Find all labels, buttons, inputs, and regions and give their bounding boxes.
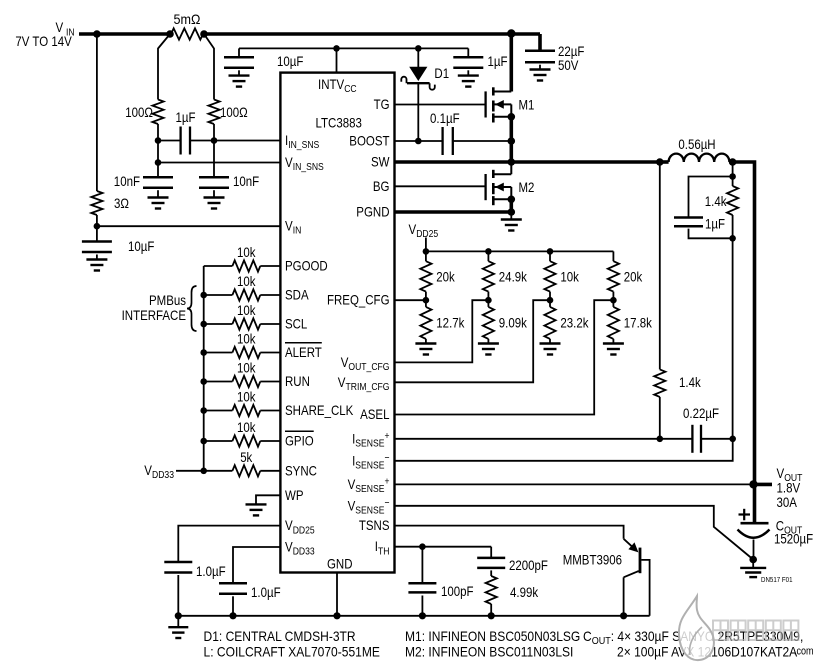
wire INTVCC rail xyxy=(239,47,468,49)
junction divider bus 3 xyxy=(547,248,554,255)
wire VIN pin xyxy=(97,225,281,227)
resistor 3ohm xyxy=(91,191,102,215)
label 20k divider 1 xyxy=(436,269,455,285)
svg-text:M2: INFINEON BSC011N03LSI: M2: INFINEON BSC011N03LSI xyxy=(405,644,573,660)
pin SCL xyxy=(285,316,307,332)
junction bus SYNC xyxy=(200,468,207,475)
resistor 1.4k dcr xyxy=(654,369,665,397)
resistor 4.99k xyxy=(486,576,497,604)
wire VSENSE+ line xyxy=(395,483,754,485)
svg-text:M2: M2 xyxy=(519,179,535,195)
wire BOOST right xyxy=(453,140,512,142)
note D1 part xyxy=(204,628,356,644)
resistor 20k divider 1 top xyxy=(420,261,431,291)
junction VIN-3ohm xyxy=(93,30,101,38)
wire 3ohm to node xyxy=(96,215,98,226)
svg-text:SENSE: SENSE xyxy=(355,460,384,472)
resistor 10k ALERT xyxy=(232,347,260,358)
svg-text:DD25: DD25 xyxy=(416,228,438,240)
resistor 1.4k snubber xyxy=(727,186,738,215)
svg-text:DN517 F01: DN517 F01 xyxy=(761,575,793,584)
pin VIN_SNS xyxy=(285,154,324,173)
resistor 10k divider 3 top xyxy=(544,261,555,291)
junction divider mid 3 xyxy=(547,297,554,304)
junction L1 out xyxy=(729,158,737,166)
wire dcr to isense xyxy=(659,397,661,439)
svg-text:17.8k: 17.8k xyxy=(624,315,653,331)
resistor 10k RUN xyxy=(232,376,260,387)
svg-text:FREQ_CFG: FREQ_CFG xyxy=(327,292,390,308)
svg-text:PGND: PGND xyxy=(356,204,389,220)
wire 22uF stub xyxy=(538,34,542,51)
svg-text:RUN: RUN xyxy=(285,373,310,389)
junction INTVCC pin xyxy=(333,45,340,52)
svg-text:24.9k: 24.9k xyxy=(499,269,528,285)
svg-text:WP: WP xyxy=(285,487,304,503)
wire snubber bottom xyxy=(689,229,733,239)
capacitor 10nF right xyxy=(199,177,229,188)
label MMBT3906 xyxy=(563,552,622,568)
node VDD33 feed label xyxy=(144,462,174,481)
wire TSNS xyxy=(395,526,624,539)
label 24.9k divider 2 xyxy=(499,269,528,285)
label 20k divider 4 xyxy=(624,269,643,285)
wire left 10nF drop xyxy=(157,163,159,178)
junction IIN_SNS right xyxy=(211,137,218,144)
wire SW xyxy=(395,160,660,164)
capacitor COUT polarized xyxy=(738,523,770,559)
label 10uF vin xyxy=(128,238,154,254)
junction VIN_SNS xyxy=(155,159,162,166)
svg-text:23.2k: 23.2k xyxy=(560,315,589,331)
label 10k GPIO xyxy=(237,419,256,435)
transistor M2 xyxy=(486,162,512,205)
wire divider bus xyxy=(426,250,614,252)
capacitor 0.22uF xyxy=(660,425,733,453)
wire VTRIM_CFG xyxy=(395,300,551,382)
pin ASEL xyxy=(360,406,390,422)
diode D1 schottky xyxy=(401,48,435,141)
svg-text:IN_SNS: IN_SNS xyxy=(293,161,324,173)
svg-text:µF: µF xyxy=(182,109,196,125)
capacitor 10nF left xyxy=(143,177,173,188)
svg-text:.com: .com xyxy=(794,646,814,658)
wire divider top 3 xyxy=(549,251,551,261)
svg-text:100Ω: 100Ω xyxy=(220,104,248,120)
svg-text:10nF: 10nF xyxy=(114,173,140,189)
label 10k SDA xyxy=(237,273,256,289)
resistor 9.09k divider 2 bottom xyxy=(483,307,494,339)
svg-text:10µF: 10µF xyxy=(277,53,303,69)
svg-text:+: + xyxy=(385,430,390,442)
pin PGND xyxy=(356,204,389,220)
wire divider mid 2 xyxy=(487,292,489,307)
pin ISENSE- xyxy=(352,452,389,472)
svg-text:10k: 10k xyxy=(560,269,579,285)
junction VIN pin node xyxy=(94,223,101,230)
junction bus ALERT xyxy=(200,349,207,356)
svg-text:TH: TH xyxy=(378,545,390,557)
wire 100pF to rail xyxy=(421,596,423,616)
label 17.8k divider 4 xyxy=(624,315,653,331)
transistor Q1 MMBT3906 xyxy=(624,539,650,616)
svg-text:SENSE: SENSE xyxy=(355,438,384,450)
svg-text:LTC3883: LTC3883 xyxy=(316,115,363,131)
wire snubber cap branch xyxy=(689,177,733,218)
wire left tap lower xyxy=(157,124,159,163)
svg-text:100Ω: 100Ω xyxy=(125,104,153,120)
wire ISENSE+ line xyxy=(395,438,660,440)
node VIN input label xyxy=(15,19,74,49)
wire M1 source to SW xyxy=(509,117,513,162)
label 10k divider 3 xyxy=(560,269,579,285)
wire IIN_SNS xyxy=(214,140,280,142)
junction bus RUN xyxy=(200,378,207,385)
junction 5mohm left xyxy=(166,30,174,38)
label 100ohm right xyxy=(220,104,248,120)
svg-text:1.0µF: 1.0µF xyxy=(251,584,281,600)
svg-text:SW: SW xyxy=(371,154,390,170)
label 0.1uF xyxy=(430,110,460,126)
pin VDD25 xyxy=(285,517,315,536)
svg-text:10k: 10k xyxy=(237,389,256,405)
pin VIN xyxy=(285,218,301,237)
svg-text:10k: 10k xyxy=(237,302,256,318)
junction ITH xyxy=(419,543,426,550)
brace PMBus xyxy=(187,286,197,331)
capacitor 22uF input xyxy=(525,51,555,62)
wire DCR sense vertical xyxy=(659,162,661,369)
svg-text:INTERFACE: INTERFACE xyxy=(122,307,186,323)
svg-text:0.56µH: 0.56µH xyxy=(678,136,715,152)
junction rail gnd pin xyxy=(333,612,340,619)
svg-text:10µF: 10µF xyxy=(128,238,154,254)
wire GPIO row xyxy=(204,440,281,442)
op-amp U1 LTC3883 body xyxy=(280,73,394,573)
svg-text:SDA: SDA xyxy=(285,287,309,303)
pin TG xyxy=(374,96,390,112)
wire snubber top xyxy=(732,162,734,186)
label 2200pF xyxy=(509,557,548,573)
inductor L1 0.56uH xyxy=(660,154,733,162)
label COUT plus xyxy=(739,509,751,521)
junction SW M2 xyxy=(508,158,516,166)
svg-text:9.09k: 9.09k xyxy=(499,315,528,331)
svg-text:−: − xyxy=(385,497,390,509)
svg-text:0.22µF: 0.22µF xyxy=(683,405,719,421)
label 0.56uH xyxy=(678,136,715,152)
svg-text:L: COILCRAFT XAL7070-551ME: L: COILCRAFT XAL7070-551ME xyxy=(204,644,380,660)
ground 10uF intvcc xyxy=(229,70,250,86)
svg-text:1µF: 1µF xyxy=(705,216,725,232)
svg-text:5k: 5k xyxy=(240,449,253,465)
svg-text:TSNS: TSNS xyxy=(359,517,390,533)
junction rail vdd25 xyxy=(175,612,182,619)
capacitor 1.0uF vdd25 xyxy=(164,562,192,573)
svg-text:1.4k: 1.4k xyxy=(705,193,728,209)
pin ITH xyxy=(375,538,390,557)
ground rail left xyxy=(168,616,188,638)
wire left sense tap xyxy=(158,34,170,100)
svg-text:DD33: DD33 xyxy=(293,546,315,558)
ground 10nF right xyxy=(204,190,225,208)
wire BOOST left xyxy=(395,140,443,142)
wire right sense tap xyxy=(204,34,214,100)
svg-text:−: − xyxy=(385,452,390,464)
note COUT part1 xyxy=(583,628,803,647)
svg-text:ALERT: ALERT xyxy=(285,344,322,360)
resistor 24.9k divider 2 top xyxy=(483,261,494,291)
label M1 xyxy=(519,97,535,113)
wire VDD25 bypass xyxy=(178,526,280,562)
svg-text:DD25: DD25 xyxy=(293,524,315,536)
wire VOUT corner xyxy=(733,162,755,523)
pin VDD33 xyxy=(285,539,315,558)
label 1.0uF vdd33 xyxy=(251,584,281,600)
ground WP xyxy=(246,495,281,515)
junction snubber top xyxy=(729,173,736,180)
svg-text:12.7k: 12.7k xyxy=(436,315,465,331)
junction bus SDA xyxy=(200,292,207,299)
wire 4.99k to rail xyxy=(490,604,492,616)
capacitor 1uF intvcc xyxy=(453,48,483,67)
resistor 10k SHARE_CLK xyxy=(232,405,260,416)
svg-text:Ω: Ω xyxy=(191,11,200,27)
svg-text:PGOOD: PGOOD xyxy=(285,258,328,274)
label 4.99k xyxy=(510,584,539,600)
svg-text:50V: 50V xyxy=(558,57,579,73)
label D1 xyxy=(434,65,449,81)
svg-text:IN_SNS: IN_SNS xyxy=(288,139,319,151)
label 1uF intvcc xyxy=(488,53,508,69)
svg-text:SENSE: SENSE xyxy=(355,505,384,517)
capacitor 1uF input filter xyxy=(158,127,214,155)
wire divider top 4 xyxy=(612,251,614,261)
ground PGND xyxy=(501,212,522,231)
label 5k SYNC xyxy=(240,449,253,465)
junction BOOST SW cap xyxy=(508,137,516,145)
pin WP xyxy=(285,487,304,503)
label 3ohm xyxy=(114,195,129,211)
junction COUT gnd xyxy=(749,556,757,564)
watermark xyxy=(679,596,814,660)
wire VIN rail xyxy=(79,32,540,36)
resistor 12.7k divider 1 bottom xyxy=(420,307,431,339)
wire sense divider vertical xyxy=(732,215,734,439)
wire vdd33 cap to rail xyxy=(232,596,234,616)
svg-text:TG: TG xyxy=(374,96,390,112)
resistor 10k SCL xyxy=(232,318,260,329)
node VDD25 label xyxy=(409,221,439,240)
pin BG xyxy=(373,178,390,194)
wire SYNC row xyxy=(204,470,281,472)
svg-text:CC: CC xyxy=(344,83,357,95)
wire SDA row xyxy=(204,294,281,296)
junction VIN M1 xyxy=(507,29,515,37)
junction Q1 collector xyxy=(620,612,627,619)
ground 10uF vin xyxy=(86,255,107,271)
label 1.0uF vdd25 xyxy=(196,563,226,579)
pin VTRIM_CFG xyxy=(338,374,390,393)
ground divider 4 xyxy=(603,339,624,355)
svg-text:DD33: DD33 xyxy=(152,469,174,481)
svg-text:M1: M1 xyxy=(519,97,535,113)
wire 2200pF to res xyxy=(490,570,492,576)
capacitor 100pF xyxy=(408,583,436,592)
capacitor 2200pF xyxy=(477,558,505,568)
pin BOOST xyxy=(349,133,390,149)
note L part xyxy=(204,644,380,660)
svg-text:D1: CENTRAL CMDSH-3TR: D1: CENTRAL CMDSH-3TR xyxy=(204,628,356,644)
label 0.22uF xyxy=(683,405,719,421)
svg-text:7V TO 14V: 7V TO 14V xyxy=(15,33,72,49)
svg-text:5m: 5m xyxy=(174,11,192,27)
resistor 5mohm sense xyxy=(171,28,203,39)
svg-text:SYNC: SYNC xyxy=(285,462,317,478)
label 1.4k snubber xyxy=(705,193,728,209)
junction bus SCL xyxy=(200,321,207,328)
resistor 23.2k divider 3 bottom xyxy=(544,307,555,339)
svg-text:10k: 10k xyxy=(237,244,256,260)
svg-text:20k: 20k xyxy=(436,269,455,285)
svg-text:GPIO: GPIO xyxy=(285,433,314,449)
ground divider 3 xyxy=(540,339,561,355)
pin VSENSE+ xyxy=(348,476,390,496)
pin SW xyxy=(371,154,390,170)
junction M1 source xyxy=(508,113,516,121)
label M2 xyxy=(519,179,535,195)
svg-text:ASEL: ASEL xyxy=(360,406,390,422)
junction IIN_SNS left xyxy=(155,137,162,144)
label VOUT xyxy=(777,465,803,510)
resistor 17.8k divider 4 bottom xyxy=(608,307,619,339)
wire ALERT row xyxy=(204,352,281,354)
label 10k ALERT xyxy=(237,331,256,347)
label 5mohm xyxy=(174,11,201,27)
capacitor 1.0uF vdd33 xyxy=(219,583,247,594)
svg-text:MMBT3906: MMBT3906 xyxy=(563,552,622,568)
resistor 10k PGOOD xyxy=(232,260,260,271)
ground 22uF xyxy=(530,65,551,81)
junction rail 4.99k xyxy=(488,612,495,619)
wire VSENSE- line xyxy=(395,506,754,560)
pin VSENSE- xyxy=(348,497,390,517)
svg-text:4.99k: 4.99k xyxy=(510,584,539,600)
wire M1 drain feed xyxy=(509,34,513,92)
wire ground rail xyxy=(178,615,649,617)
wire divider top 2 xyxy=(487,251,489,261)
wire VOUT tick xyxy=(754,483,773,487)
svg-text:SENSE: SENSE xyxy=(355,483,384,495)
pin SHARE_CLK xyxy=(285,402,354,418)
pin VOUT_CFG xyxy=(341,354,390,373)
junction bus SHARE_CLK xyxy=(200,407,207,414)
svg-text:3Ω: 3Ω xyxy=(114,195,129,211)
wire pullup bus xyxy=(203,266,205,471)
label 10k PGOOD xyxy=(237,244,256,260)
svg-text:10k: 10k xyxy=(237,273,256,289)
wire BG xyxy=(395,185,486,187)
label 1uF input filter xyxy=(176,109,196,125)
wire divider mid 1 xyxy=(425,292,427,307)
resistor 100ohm right xyxy=(208,100,219,125)
label DN517 F01 xyxy=(761,575,793,584)
capacitor 0.1uF boost xyxy=(443,127,453,155)
label 12.7k divider 1 xyxy=(436,315,465,331)
junction 5mohm right xyxy=(200,30,208,38)
junction D1 boost xyxy=(415,138,422,145)
pin GND xyxy=(327,556,353,572)
ground divider 2 xyxy=(478,339,499,355)
wire M2 source to PGND xyxy=(509,199,513,212)
svg-text:BG: BG xyxy=(373,178,390,194)
pin TSNS xyxy=(359,517,390,533)
ground COUT xyxy=(740,560,766,578)
label COUT xyxy=(774,518,813,547)
capacitor 1uF snubber xyxy=(674,218,703,227)
label 10nF right xyxy=(233,173,259,189)
pin GPIO xyxy=(285,431,314,448)
svg-text:+: + xyxy=(385,476,390,488)
pin SYNC xyxy=(285,462,317,478)
resistor 5k SYNC xyxy=(232,465,260,476)
resistor 10k SDA xyxy=(232,289,260,300)
wire ITH xyxy=(395,546,492,548)
wire SCL row xyxy=(204,323,281,325)
svg-text:10k: 10k xyxy=(237,360,256,376)
svg-text:1.0µF: 1.0µF xyxy=(196,563,226,579)
wire PGOOD row xyxy=(204,265,281,267)
label 100pF xyxy=(441,583,474,599)
wire RUN row xyxy=(204,381,281,383)
junction divider mid 2 xyxy=(485,297,492,304)
svg-text:TRIM_CFG: TRIM_CFG xyxy=(346,381,390,393)
capacitor 10uF intvcc xyxy=(224,57,254,68)
label 100ohm left xyxy=(125,104,153,120)
junction bus GPIO xyxy=(200,438,207,445)
wire divider mid 3 xyxy=(549,292,551,307)
svg-text:1520µF: 1520µF xyxy=(774,531,813,547)
svg-text:D1: D1 xyxy=(434,65,449,81)
label U1 LTC3883 xyxy=(316,115,363,131)
pin ALERT xyxy=(285,343,322,360)
junction divider bus 1 xyxy=(423,248,430,255)
svg-text:SHARE_CLK: SHARE_CLK xyxy=(285,402,354,418)
wire VIN branch vertical xyxy=(96,34,98,191)
junction rail 100pF xyxy=(419,612,426,619)
wire INTVCC stub to 10uF xyxy=(238,48,240,57)
label 10k SHARE_CLK xyxy=(237,389,256,405)
svg-text:M1: INFINEON BSC050N03LSG: M1: INFINEON BSC050N03LSG xyxy=(405,628,580,644)
wire FREQ_CFG xyxy=(395,299,426,301)
wire VDD33 bypass xyxy=(233,547,280,583)
wire right tap lower xyxy=(213,124,215,177)
wire TG xyxy=(395,104,486,106)
pin SDA xyxy=(285,287,309,303)
wire VDD25 stub xyxy=(425,238,427,252)
svg-text:INTV: INTV xyxy=(318,76,345,92)
junction divider mid 4 xyxy=(610,297,617,304)
wire vdd25 cap to rail xyxy=(177,575,179,616)
ground 1uF intvcc xyxy=(458,70,479,86)
svg-text:GND: GND xyxy=(327,556,353,572)
label 10k SCL xyxy=(237,302,256,318)
svg-text:1.4k: 1.4k xyxy=(679,374,702,390)
junction divider bus 2 xyxy=(485,248,492,255)
wire ASEL xyxy=(395,300,614,414)
wire SHARE_CLK row xyxy=(204,410,281,412)
label 10k RUN xyxy=(237,360,256,376)
